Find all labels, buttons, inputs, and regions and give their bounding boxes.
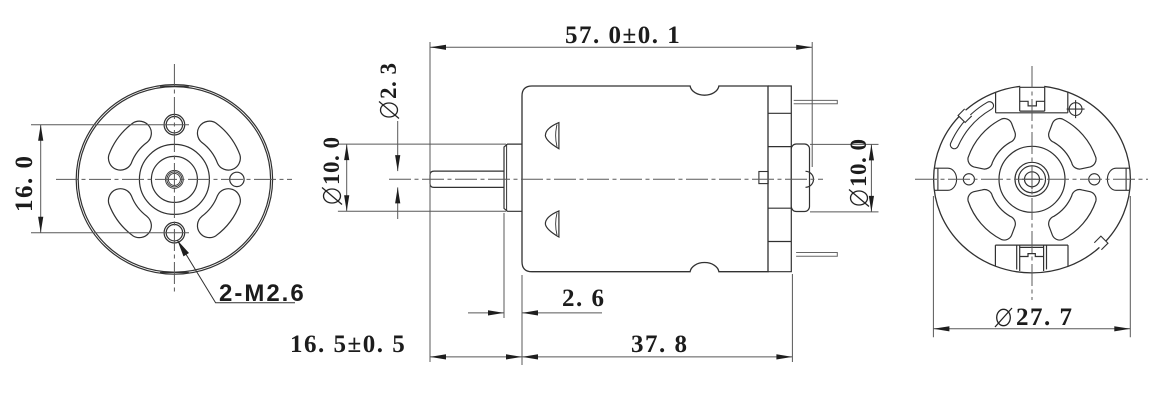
dim 16.0 dimension line (40, 125, 42, 233)
center rings rear (999, 146, 1065, 212)
side view: shaft (430, 171, 504, 187)
rear view: can outline (934, 86, 1131, 273)
vent louver lower (545, 211, 559, 237)
keyhole notch right (1107, 168, 1129, 190)
svg-text:57. 0±0. 1: 57. 0±0. 1 (565, 22, 681, 49)
erase arc at top cap (1020, 81, 1044, 87)
dim phi10 left extensions (338, 144, 506, 211)
dim 57.0 line (430, 46, 812, 48)
centerlines rear view (915, 66, 1148, 300)
bearing boss circles (139, 144, 209, 214)
svg-text:16. 0: 16. 0 (11, 155, 38, 213)
leader arrow to bottom hole (177, 240, 295, 303)
bearing boss side (504, 144, 522, 211)
dim 27.7 extensions (933, 196, 1130, 337)
svg-text:2. 3: 2. 3 (376, 63, 401, 100)
svg-text:37. 8: 37. 8 (631, 331, 689, 358)
can flat chords top and bottom (160, 86, 189, 272)
mounting screw hole bottom (164, 222, 185, 243)
dim 2.6 extension line (468, 213, 602, 318)
dim 27.7 line (933, 328, 1130, 330)
small holes left right (963, 174, 974, 185)
rim notch NW (958, 109, 972, 123)
svg-text:10. 0: 10. 0 (846, 139, 871, 188)
svg-text:27. 7: 27. 7 (1016, 304, 1074, 331)
brush housing rear (791, 144, 809, 212)
svg-text:10. 0: 10. 0 (319, 137, 344, 186)
rear bearing bump (806, 171, 814, 187)
dim phi10 right extensions (810, 144, 879, 212)
dim phi2.3 line and arrows (397, 121, 399, 219)
svg-text:2. 6: 2. 6 (562, 285, 606, 312)
terminal small rect (759, 172, 768, 184)
four rear vent slots (968, 119, 1096, 241)
dim 16.0 arrows (38, 125, 43, 233)
mounting screw hole top (164, 114, 244, 243)
centerline side view (389, 178, 823, 180)
dim 16.5 and 37.8 lines (430, 274, 792, 365)
screw head symbol (1067, 100, 1085, 118)
four curved vent slots (108, 121, 240, 237)
keyhole notch left (934, 168, 1129, 190)
endbell strip (768, 86, 791, 272)
dim phi10 left line (346, 144, 348, 211)
motor can body (522, 86, 768, 272)
svg-text:2-M2.6: 2-M2.6 (219, 280, 306, 307)
terminal lug bottom (796, 253, 837, 257)
dim 16.0 extension lines (31, 125, 189, 233)
front view: motor end-cap outer rim (76, 85, 272, 275)
dim text phi2.3 (376, 63, 401, 119)
dim text phi10.0 right (846, 139, 871, 207)
dim text phi10.0 left (319, 137, 344, 205)
dim 57.0 extension lines (430, 42, 812, 362)
centerlines front view (56, 64, 292, 294)
dim 2.6 tails (468, 312, 504, 314)
vent louver upper (545, 123, 559, 149)
alignment hole right (230, 172, 244, 186)
bottom cap rear (995, 245, 1068, 271)
dim phi10 right line (870, 144, 872, 212)
top cap rear (996, 87, 1068, 113)
dim text phi27.7 (995, 304, 1074, 331)
terminal lug top (794, 100, 838, 103)
svg-text:16. 5±0. 5: 16. 5±0. 5 (290, 331, 406, 358)
thin arc slot NW (950, 102, 993, 149)
rim notch SE (1094, 236, 1108, 250)
shaft circles (166, 171, 184, 189)
center cross (1022, 169, 1042, 189)
